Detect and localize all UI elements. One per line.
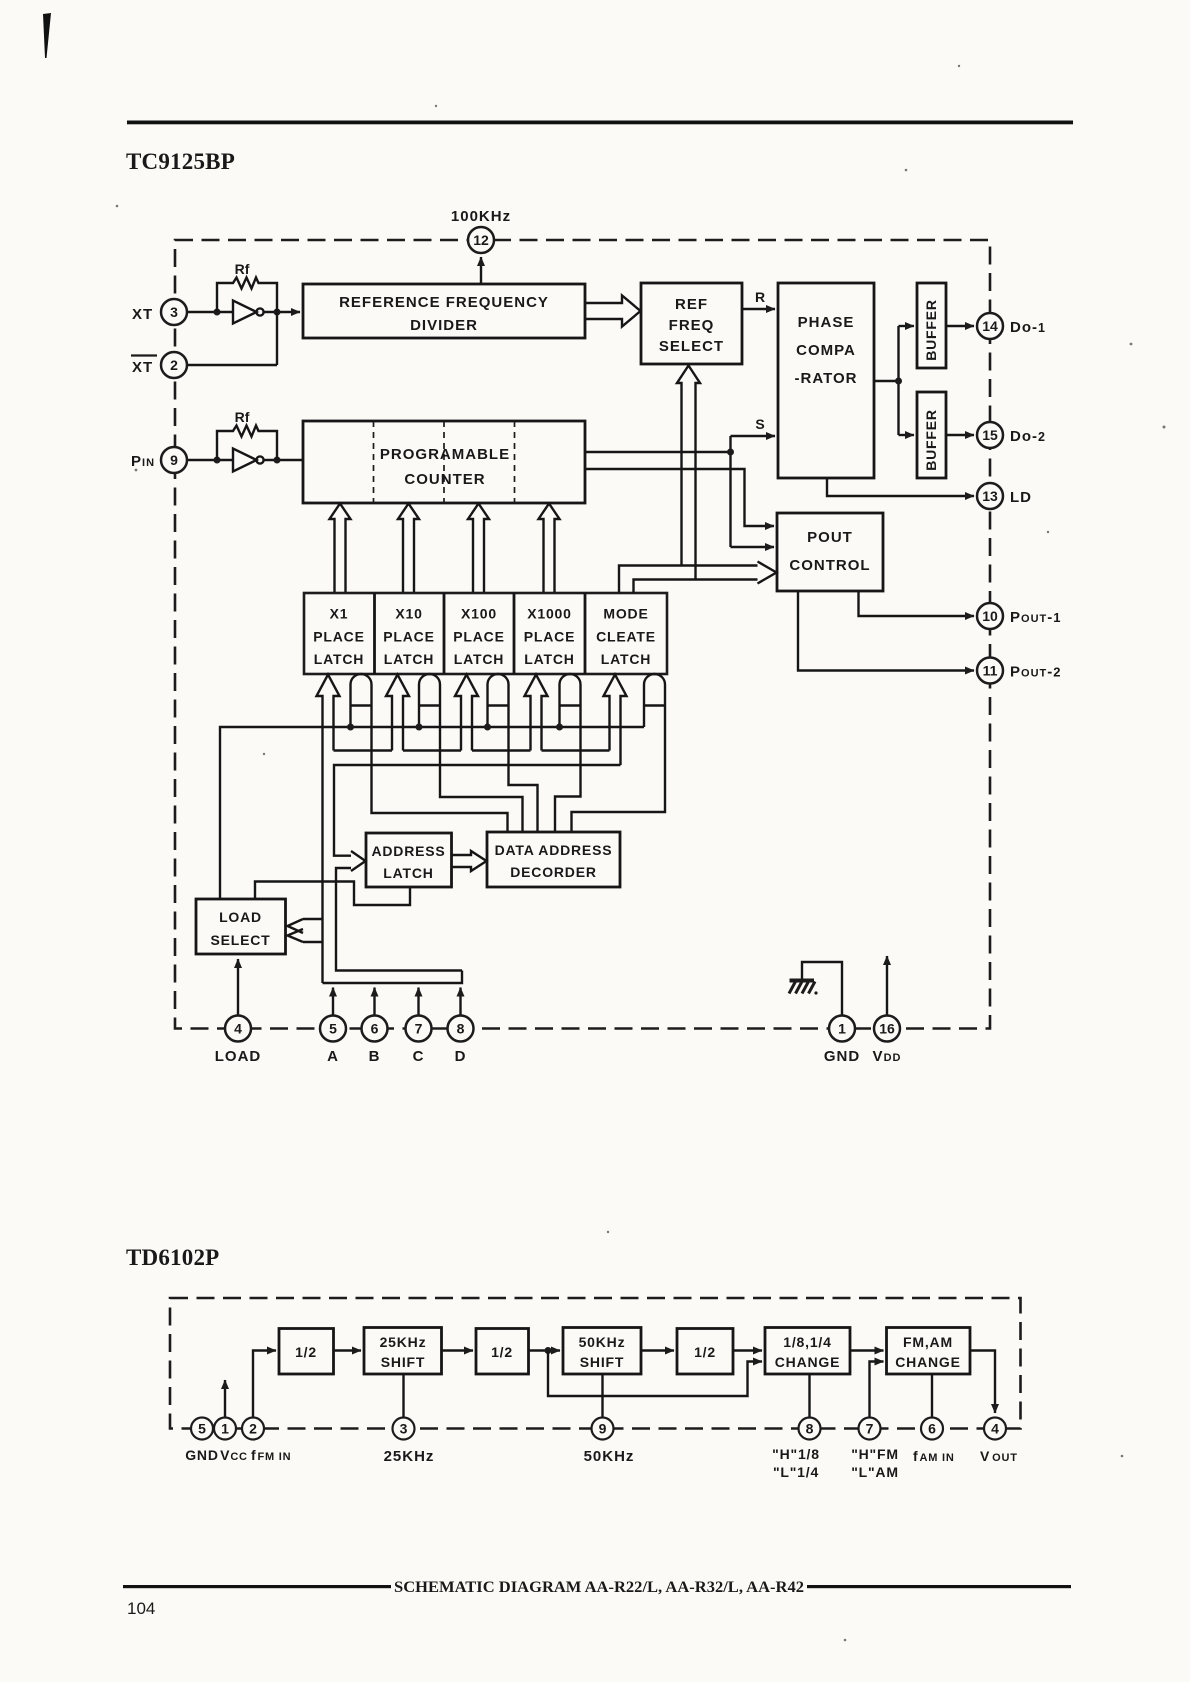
- wire pin6 B: [373, 988, 375, 1016]
- pin 7 (TD): [859, 1418, 881, 1440]
- resistor Rf (Pin) feedback loop: [217, 426, 277, 461]
- enable gate X10 latch: [419, 674, 523, 832]
- svg-text:1/8,1/4: 1/8,1/4: [783, 1334, 831, 1350]
- inverter U2 (Pin input): [233, 449, 264, 472]
- svg-text:4: 4: [234, 1021, 242, 1037]
- ref freq select box: [641, 283, 742, 364]
- svg-text:CONTROL: CONTROL: [789, 557, 870, 574]
- divider 1/2 box A: [279, 1329, 334, 1375]
- svg-text:7: 7: [866, 1421, 874, 1437]
- svg-text:REF: REF: [675, 296, 708, 313]
- svg-text:PLACE: PLACE: [524, 629, 575, 645]
- pin 1 Vcc (TD): [214, 1418, 236, 1440]
- pin 10: [977, 603, 1003, 629]
- svg-text:1/2: 1/2: [295, 1344, 317, 1360]
- wire data bus upper to address latch: [336, 868, 462, 971]
- wire pin8 D: [459, 988, 461, 1016]
- FM AM change box: [887, 1328, 971, 1375]
- svg-text:GND: GND: [185, 1447, 219, 1463]
- node strobe X1000: [556, 724, 563, 731]
- wire inverter U2 output to counter: [264, 459, 304, 461]
- svg-text:3: 3: [170, 304, 178, 320]
- wire pin1 to ground: [802, 962, 842, 1016]
- svg-text:SHIFT: SHIFT: [381, 1354, 425, 1370]
- wire pin16 VDD supply arrow: [886, 956, 888, 1016]
- wire bypass to 1/8 1/4 change: [548, 1351, 762, 1397]
- wire pin7 C: [417, 988, 419, 1016]
- enable gate X1000 latch: [555, 674, 581, 832]
- footer rule left: [123, 1585, 391, 1588]
- svg-text:X10: X10: [395, 606, 422, 622]
- wire to buffer 1: [899, 325, 915, 327]
- node input inverter U2: [214, 457, 221, 464]
- divider 1/2 box B: [476, 1329, 529, 1375]
- svg-text:fAM IN: fAM IN: [913, 1448, 955, 1464]
- svg-text:PLACE: PLACE: [453, 629, 504, 645]
- svg-text:fFM IN: fFM IN: [251, 1447, 291, 1463]
- buffer 1 box: [917, 283, 946, 368]
- label H FM L AM (TD): [851, 1446, 899, 1480]
- svg-text:Rf: Rf: [235, 409, 250, 425]
- pin 7 C: [406, 1016, 432, 1042]
- wire pin2 fFM to divider 1/2: [253, 1351, 276, 1418]
- svg-text:1: 1: [838, 1021, 846, 1037]
- svg-text:COUNTER: COUNTER: [404, 471, 485, 488]
- wire data chain segment 1: [334, 749, 393, 751]
- pin 4 LOAD: [225, 1016, 251, 1042]
- svg-text:9: 9: [170, 452, 178, 468]
- IC boundary TD6102P (dashed): [170, 1298, 1021, 1429]
- X10 place latch: [383, 606, 434, 668]
- svg-text:25KHz: 25KHz: [380, 1334, 427, 1350]
- arrowhead into address latch upper: [351, 851, 366, 871]
- wire pout control to pin10: [859, 591, 975, 616]
- wire 25KHz shift to 1/2B: [442, 1349, 474, 1351]
- svg-text:DECORDER: DECORDER: [510, 864, 597, 880]
- node phase comparator output junction: [895, 378, 902, 385]
- wire data chain segment 3: [472, 749, 531, 751]
- pin 9 50KHz (TD): [592, 1418, 614, 1440]
- svg-text:100KHz: 100KHz: [451, 208, 511, 225]
- svg-text:1: 1: [221, 1421, 229, 1437]
- svg-text:CHANGE: CHANGE: [775, 1354, 840, 1370]
- svg-text:SHIFT: SHIFT: [580, 1354, 624, 1370]
- svg-text:10: 10: [982, 608, 998, 624]
- svg-text:CHANGE: CHANGE: [895, 1354, 960, 1370]
- enable gate mode latch: [572, 674, 666, 832]
- reference frequency divider box: [303, 284, 585, 338]
- 50KHz shift box: [563, 1328, 641, 1375]
- wire buffer2 to pin15: [946, 434, 974, 436]
- bus arrow X100 latch to counter: [468, 504, 489, 594]
- svg-text:7: 7: [415, 1021, 423, 1037]
- wire pin2 XTbar to feedback node: [187, 364, 277, 366]
- svg-text:FREQ: FREQ: [669, 317, 715, 334]
- divider 1/2 box C: [677, 1329, 733, 1375]
- svg-text:8: 8: [457, 1021, 465, 1037]
- svg-text:3: 3: [400, 1421, 408, 1437]
- wire 1/2C to 1/8 1/4 change: [733, 1349, 762, 1351]
- data address decorder box: [487, 832, 620, 887]
- svg-text:2: 2: [170, 357, 178, 373]
- bus mode latch lines: [619, 566, 758, 594]
- svg-text:A: A: [327, 1048, 339, 1065]
- pin 9 Pin: [161, 447, 187, 473]
- node strobe X10: [416, 724, 423, 731]
- bus arrow divider to ref freq select: [585, 296, 641, 327]
- svg-text:POUT-2: POUT-2: [1010, 664, 1061, 681]
- data arrow into X1 latch: [317, 675, 340, 984]
- pin 11: [977, 658, 1003, 684]
- svg-text:VOUT: VOUT: [980, 1448, 1018, 1464]
- pin 2 XTbar: [161, 352, 187, 378]
- svg-text:SELECT: SELECT: [659, 338, 724, 355]
- svg-text:LATCH: LATCH: [601, 651, 651, 667]
- svg-text:1/2: 1/2: [491, 1344, 513, 1360]
- pin 12: [468, 227, 494, 253]
- label XT overline: [131, 356, 157, 377]
- node bypass junction: [545, 1347, 552, 1354]
- wire data chain segment 4: [542, 749, 610, 751]
- wire divider to pin12 100KHz output: [480, 257, 482, 284]
- wire programmable counter output 2 to pout control: [585, 469, 774, 526]
- svg-text:LOAD: LOAD: [215, 1048, 262, 1065]
- svg-text:-RATOR: -RATOR: [795, 370, 858, 387]
- wire address line to address latch: [334, 765, 621, 856]
- wire pout control to pin11: [798, 591, 974, 671]
- label H 1/8 L 1/4 (TD): [772, 1446, 820, 1480]
- svg-text:X1: X1: [330, 606, 349, 622]
- svg-text:DIVIDER: DIVIDER: [410, 317, 478, 334]
- svg-text:PLACE: PLACE: [383, 629, 434, 645]
- bus mode latch to ref freq select (vertical hollow arrow): [677, 366, 700, 580]
- top rule: [127, 121, 1073, 125]
- wire to buffer 2: [899, 434, 915, 436]
- pin 8 (TD): [799, 1418, 821, 1440]
- pin 2 fFM in (TD): [242, 1418, 264, 1440]
- svg-text:POUT: POUT: [807, 529, 853, 546]
- svg-text:PIN: PIN: [131, 453, 155, 470]
- svg-text:Rf: Rf: [235, 261, 250, 277]
- wire phase comparator to pin13 LD: [827, 478, 974, 496]
- svg-text:BUFFER: BUFFER: [923, 409, 939, 471]
- svg-text:15: 15: [982, 427, 998, 443]
- svg-text:SCHEMATIC DIAGRAM AA-R22/L, A: SCHEMATIC DIAGRAM AA-R22/L, AA-R32/L, AA…: [394, 1579, 804, 1596]
- bus arrow X1 latch to counter: [330, 504, 351, 594]
- wire junction to pout control input 2: [731, 546, 775, 548]
- wire R ref freq select to phase comparator: [742, 308, 775, 310]
- IC boundary TC9125BP (dashed): [175, 240, 990, 1029]
- svg-text:5: 5: [329, 1021, 337, 1037]
- svg-text:2: 2: [249, 1421, 257, 1437]
- svg-text:GND: GND: [824, 1048, 860, 1065]
- wire pin9 to inverter U2: [187, 459, 233, 461]
- wire inverter U1 output to divider: [264, 311, 301, 313]
- pin 3 25KHz (TD): [393, 1418, 415, 1440]
- svg-text:6: 6: [371, 1021, 379, 1037]
- svg-text:X1000: X1000: [527, 606, 571, 622]
- svg-text:8: 8: [806, 1421, 814, 1437]
- svg-text:PROGRAMABLE: PROGRAMABLE: [380, 446, 510, 463]
- svg-text:PLACE: PLACE: [313, 629, 364, 645]
- wire 1/2B to 50KHz shift: [529, 1349, 561, 1351]
- svg-text:S: S: [755, 416, 764, 432]
- enable gate X1 latch: [351, 674, 508, 832]
- bus arrow address latch to decoder: [452, 851, 487, 871]
- pin 5 A: [320, 1016, 346, 1042]
- svg-text:25KHz: 25KHz: [384, 1448, 435, 1465]
- wire 1/8 1/4 change to FM AM change: [850, 1349, 884, 1351]
- node output inverter U1: [274, 309, 281, 316]
- svg-text:CLEATE: CLEATE: [596, 629, 656, 645]
- ground symbol: [789, 981, 818, 995]
- svg-text:"H"FM: "H"FM: [851, 1446, 899, 1462]
- svg-text:DATA ADDRESS: DATA ADDRESS: [495, 842, 613, 858]
- data arrow into X1000 latch: [525, 675, 548, 751]
- wire data bus lower from pins: [323, 971, 463, 984]
- resistor Rf (XT) feedback loop: [217, 278, 277, 366]
- 25KHz shift box: [364, 1328, 442, 1375]
- svg-text:C: C: [413, 1048, 425, 1065]
- svg-text:6: 6: [928, 1421, 936, 1437]
- pin 15: [977, 422, 1003, 448]
- wire programmable counter output 1: [585, 436, 731, 547]
- footer rule right: [807, 1585, 1071, 1588]
- pin 8 D: [448, 1016, 474, 1042]
- svg-text:4: 4: [991, 1421, 999, 1437]
- bus arrowhead into pout control: [758, 562, 777, 584]
- wire buffer1 to pin14: [946, 325, 974, 327]
- wire pin5 A: [332, 988, 334, 1016]
- svg-text:B: B: [369, 1048, 381, 1065]
- programmable counter box: [303, 421, 585, 503]
- wire pin9 50KHz: [601, 1374, 603, 1418]
- node strobe X1: [347, 724, 354, 731]
- pin 4 Vout (TD): [984, 1418, 1006, 1440]
- wire phase comparator output: [874, 326, 899, 435]
- svg-text:BUFFER: BUFFER: [923, 299, 939, 361]
- svg-text:R: R: [755, 289, 765, 305]
- X1000 place latch: [524, 606, 575, 668]
- svg-text:"L"AM: "L"AM: [851, 1464, 899, 1480]
- svg-text:COMPA: COMPA: [796, 342, 856, 359]
- wire A line branch to load select upper: [288, 919, 323, 933]
- svg-text:MODE: MODE: [603, 606, 648, 622]
- svg-text:5: 5: [198, 1421, 206, 1437]
- svg-text:LATCH: LATCH: [524, 651, 574, 667]
- data arrow into X100 latch: [455, 675, 478, 751]
- wire pin1 Vcc supply arrow: [224, 1380, 226, 1418]
- load select box: [196, 899, 286, 954]
- svg-text:1/2: 1/2: [694, 1344, 716, 1360]
- svg-text:X100: X100: [461, 606, 497, 622]
- svg-text:POUT-1: POUT-1: [1010, 609, 1061, 626]
- address latch box: [366, 833, 452, 887]
- wire pin3 to inverter: [187, 311, 233, 313]
- svg-text:VCC: VCC: [220, 1447, 248, 1463]
- svg-text:PHASE: PHASE: [798, 314, 855, 331]
- pin 6 fAM in (TD): [921, 1418, 943, 1440]
- svg-text:Do-2: Do-2: [1010, 428, 1046, 445]
- latch row outer box: [304, 593, 667, 674]
- svg-text:LATCH: LATCH: [314, 651, 364, 667]
- wire pin6 fAM: [931, 1374, 933, 1418]
- svg-text:XT: XT: [132, 306, 153, 323]
- svg-text:104: 104: [127, 1599, 155, 1618]
- svg-text:LOAD: LOAD: [219, 909, 262, 925]
- pin 13: [977, 483, 1003, 509]
- node counter output junction: [727, 449, 734, 456]
- wire load select to address latch: [255, 882, 410, 906]
- pin 14: [977, 313, 1003, 339]
- wire pin8: [808, 1374, 810, 1418]
- bus arrow X1000 latch to counter: [539, 504, 560, 594]
- svg-text:LD: LD: [1010, 489, 1032, 506]
- svg-text:LATCH: LATCH: [384, 651, 434, 667]
- pin 6 B: [362, 1016, 388, 1042]
- svg-text:50KHz: 50KHz: [579, 1334, 626, 1350]
- wire FM AM change to pin4 Vout: [970, 1351, 995, 1414]
- svg-text:XT: XT: [132, 359, 153, 376]
- X1 place latch: [313, 606, 364, 668]
- wire S input to phase comparator: [731, 435, 776, 437]
- mode cleate latch: [596, 606, 656, 668]
- svg-text:TD6102P: TD6102P: [126, 1245, 219, 1270]
- buffer 2 box: [917, 392, 946, 478]
- node strobe X100: [484, 724, 491, 731]
- svg-text:REFERENCE FREQUENCY: REFERENCE FREQUENCY: [339, 294, 549, 311]
- inverter U1 (XT oscillator): [233, 301, 264, 324]
- svg-text:9: 9: [599, 1421, 607, 1437]
- pin 3 XT: [161, 299, 187, 325]
- X100 place latch: [453, 606, 504, 668]
- 1/8 1/4 change box: [765, 1328, 850, 1375]
- node input inverter U1: [214, 309, 221, 316]
- svg-text:50KHz: 50KHz: [584, 1448, 635, 1465]
- svg-text:LATCH: LATCH: [383, 865, 433, 881]
- data arrow into X10 latch: [386, 675, 409, 751]
- svg-text:FM,AM: FM,AM: [903, 1334, 953, 1350]
- svg-text:12: 12: [473, 232, 489, 248]
- svg-text:LATCH: LATCH: [454, 651, 504, 667]
- enable gate X100 latch: [488, 674, 538, 832]
- wire 50KHz shift to 1/2C: [641, 1349, 674, 1351]
- wire A line branch to load select lower: [288, 929, 323, 942]
- scan artifact top-left: [43, 13, 51, 58]
- pin 16 VDD: [874, 1016, 900, 1042]
- svg-text:11: 11: [983, 663, 998, 679]
- svg-text:TC9125BP: TC9125BP: [126, 149, 235, 174]
- pin 5 GND (TD): [191, 1418, 213, 1440]
- svg-text:SELECT: SELECT: [210, 932, 270, 948]
- wire pin7 to FM AM change: [870, 1362, 884, 1418]
- node output inverter U2: [274, 457, 281, 464]
- svg-text:ADDRESS: ADDRESS: [371, 843, 445, 859]
- data arrow into mode latch: [604, 675, 627, 766]
- wire data chain segment 2: [403, 749, 461, 751]
- pin 1 GND: [829, 1016, 855, 1042]
- svg-text:13: 13: [982, 488, 998, 504]
- wire strobe bus to load select: [220, 727, 644, 899]
- phase comparator box: [778, 283, 874, 478]
- svg-text:D: D: [455, 1048, 467, 1065]
- wire 1/2A to 25KHz shift: [334, 1349, 362, 1351]
- svg-text:"L"1/4: "L"1/4: [773, 1464, 819, 1480]
- svg-text:Do-1: Do-1: [1010, 319, 1046, 336]
- bus arrow X10 latch to counter: [398, 504, 419, 594]
- svg-text:16: 16: [879, 1021, 895, 1037]
- wire pin3 25KHz: [402, 1374, 404, 1418]
- svg-text:"H"1/8: "H"1/8: [772, 1446, 820, 1462]
- wire pin4 LOAD to load select: [237, 959, 239, 1016]
- svg-text:VDD: VDD: [873, 1048, 902, 1065]
- pout control box: [777, 513, 883, 591]
- svg-text:14: 14: [982, 318, 998, 334]
